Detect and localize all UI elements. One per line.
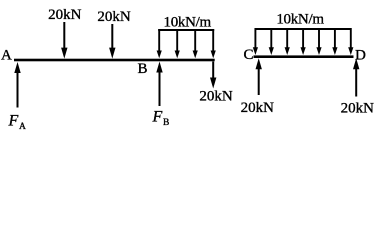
distributed arrow q2-5 (316, 28, 321, 55)
svg-text:20kN: 20kN (199, 89, 233, 105)
svg-text:20kN: 20kN (241, 100, 275, 116)
svg-text:10kN/m: 10kN/m (276, 12, 324, 28)
svg-text:F: F (8, 113, 19, 130)
distributed arrow q1-3 (193, 29, 198, 58)
distributed arrow q1-2 (175, 29, 180, 58)
distributed arrow q2-3 (285, 28, 290, 55)
svg-text:10kN/m: 10kN/m (164, 14, 212, 30)
reaction arrow 20kN at D (353, 58, 359, 96)
distributed arrow q2-1 (253, 28, 258, 55)
svg-text:B: B (138, 61, 148, 77)
distributed load line AB (158, 29, 214, 31)
reaction arrow F_B (156, 62, 162, 107)
force arrow 20kN #2 (109, 24, 115, 59)
distributed arrow q1-1 (157, 29, 162, 58)
distributed arrow q2-7 (348, 28, 353, 55)
svg-text:F: F (152, 109, 163, 126)
svg-text:A: A (1, 48, 12, 64)
svg-text:20kN: 20kN (48, 7, 82, 23)
reaction arrow F_A (14, 62, 20, 108)
end load arrow 20kN down at right end of beam AB (210, 62, 216, 89)
distributed arrow q1-4 (211, 29, 216, 58)
distributed arrow q2-2 (269, 28, 274, 55)
beam AB (14, 59, 215, 62)
force arrow 20kN #1 (61, 22, 67, 59)
beam CD (254, 55, 354, 58)
distributed arrow q2-6 (332, 28, 337, 55)
svg-text:20kN: 20kN (341, 101, 375, 117)
svg-text:20kN: 20kN (97, 9, 131, 25)
svg-text:B: B (163, 118, 169, 128)
distributed arrow q2-4 (301, 28, 306, 55)
distributed load line CD (255, 28, 350, 30)
reaction arrow 20kN at C (256, 58, 262, 95)
svg-text:A: A (19, 122, 26, 132)
svg-text:C: C (244, 47, 254, 63)
